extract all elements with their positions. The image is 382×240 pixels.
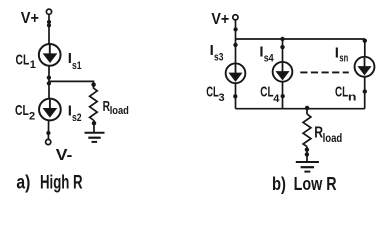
current source CL1	[39, 44, 61, 66]
svg-text:4: 4	[273, 93, 280, 105]
svg-text:sn: sn	[339, 53, 348, 65]
svg-text:b): b)	[272, 173, 286, 194]
svg-text:V+: V+	[211, 11, 229, 28]
resistor Rload (circuit b)	[303, 114, 311, 147]
wire V+ stem (circuit a)	[48, 14, 50, 44]
svg-text:3: 3	[219, 92, 225, 104]
svg-text:CL: CL	[335, 84, 348, 101]
junction dot above V- terminal	[46, 131, 50, 135]
label Rload (circuit a)	[103, 98, 129, 117]
svg-text:s4: s4	[264, 53, 275, 65]
svg-text:s1: s1	[72, 60, 82, 72]
wire rail to CLn	[364, 39, 366, 57]
label Is4	[259, 43, 274, 64]
wire Rload to ground (circuit b)	[306, 147, 308, 162]
ground (circuit a)	[85, 133, 105, 142]
label Is3	[210, 42, 224, 63]
label CL1	[16, 51, 36, 71]
current source CLn	[355, 57, 375, 77]
label Isn	[335, 45, 349, 65]
junction dots above ground (circuit b)	[305, 147, 309, 156]
wire CL2 to V- terminal	[47, 120, 49, 139]
junction dot below rail branch 1	[233, 43, 237, 47]
junction dots on V+ stem (circuit a)	[47, 20, 51, 28]
junction dot below CLn	[363, 89, 367, 93]
svg-text:V+: V+	[21, 10, 39, 27]
wire bottom rail (circuit b)	[236, 108, 365, 110]
svg-text:n: n	[348, 91, 357, 103]
junction dot on V+ stem (circuit b)	[233, 27, 237, 31]
label CL3	[206, 84, 224, 104]
label CLn	[335, 84, 357, 104]
svg-text:CL: CL	[260, 84, 273, 101]
svg-text:CL: CL	[15, 102, 29, 119]
svg-text:CL: CL	[16, 51, 30, 68]
svg-text:a): a)	[16, 172, 30, 194]
terminal V+ (circuit a)	[46, 9, 51, 14]
junction dot at rail corner branch n	[363, 39, 367, 43]
junction dot below CL4	[281, 94, 285, 98]
current source CL3	[226, 63, 246, 83]
svg-text:Low R: Low R	[294, 173, 337, 194]
svg-text:2: 2	[29, 111, 35, 123]
dashed continuation wire	[300, 71, 349, 73]
terminal V+ (circuit b)	[233, 15, 238, 20]
label Is1	[68, 50, 82, 72]
svg-text:load: load	[110, 105, 129, 117]
node A junction dots	[47, 75, 51, 85]
junction dot at Rload top (circuit a)	[91, 82, 96, 87]
svg-text:High R: High R	[40, 172, 83, 194]
junction dot on rail branch 2	[280, 37, 284, 41]
svg-text:s3: s3	[214, 51, 223, 63]
wire top rail (circuit b)	[236, 38, 365, 40]
label Is2	[68, 103, 82, 125]
resistor Rload (circuit a)	[90, 88, 98, 120]
junction dot at Rload tap (circuit b)	[305, 106, 310, 111]
current source CL4	[273, 62, 293, 82]
wire rail to Rload (circuit b)	[306, 109, 308, 115]
wire Rload to ground (circuit a)	[93, 120, 95, 133]
svg-text:load: load	[323, 133, 343, 145]
svg-text:s2: s2	[72, 112, 82, 124]
svg-text:1: 1	[30, 59, 36, 71]
wire CL3 to bottom rail	[235, 83, 237, 109]
wire rail to CL3	[235, 39, 237, 64]
junction dot below CL3	[233, 94, 237, 98]
current source CL2	[39, 99, 61, 121]
label CL4	[260, 84, 280, 105]
wire CL4 to bottom rail	[282, 82, 284, 109]
ground (circuit b)	[296, 162, 319, 172]
svg-text:V-: V-	[56, 147, 73, 164]
terminal V- (circuit a)	[46, 139, 51, 144]
svg-text:CL: CL	[206, 84, 219, 101]
wire node A to Rload	[49, 81, 94, 88]
wire V+ stem (circuit b)	[235, 20, 237, 39]
wire rail to CL4	[282, 39, 284, 62]
caption b) Low R	[272, 173, 337, 194]
wire CLn to bottom rail	[364, 77, 366, 109]
junction dot at Rload bottom (circuit a)	[92, 121, 97, 126]
caption a) High R	[16, 172, 82, 194]
svg-text:I: I	[335, 45, 339, 62]
label CL2	[15, 102, 35, 123]
junction dot below rail branch 2	[280, 45, 284, 49]
label Rload (circuit b)	[314, 125, 342, 146]
wire CL1 to CL2	[48, 66, 50, 99]
